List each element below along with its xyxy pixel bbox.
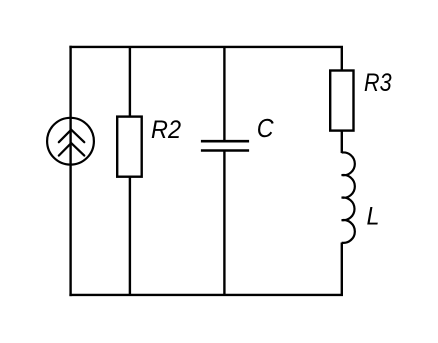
capacitor C bottom plate — [201, 149, 249, 152]
current source circle — [47, 118, 94, 165]
resistor R3 — [330, 71, 353, 131]
svg-text:R2: R2 — [151, 116, 181, 144]
resistor R2 — [117, 117, 142, 177]
wire top horizontal — [69, 46, 343, 48]
wire capacitor branch upper — [223, 47, 225, 140]
wire R3 to inductor — [341, 131, 343, 153]
current source arrow chevron lower — [59, 143, 85, 156]
svg-text:C: C — [257, 113, 274, 143]
wire right branch upper — [341, 47, 343, 71]
wire R2 branch — [129, 47, 131, 295]
wire inductor to bottom — [341, 243, 343, 295]
wire capacitor branch lower — [223, 152, 225, 295]
current source arrow chevron upper — [59, 130, 85, 143]
wire left branch — [69, 46, 71, 296]
capacitor C top plate — [201, 140, 249, 143]
svg-text:R3: R3 — [364, 69, 392, 97]
wire bottom horizontal — [69, 294, 343, 296]
svg-text:L: L — [367, 202, 380, 230]
inductor L — [342, 152, 355, 242]
